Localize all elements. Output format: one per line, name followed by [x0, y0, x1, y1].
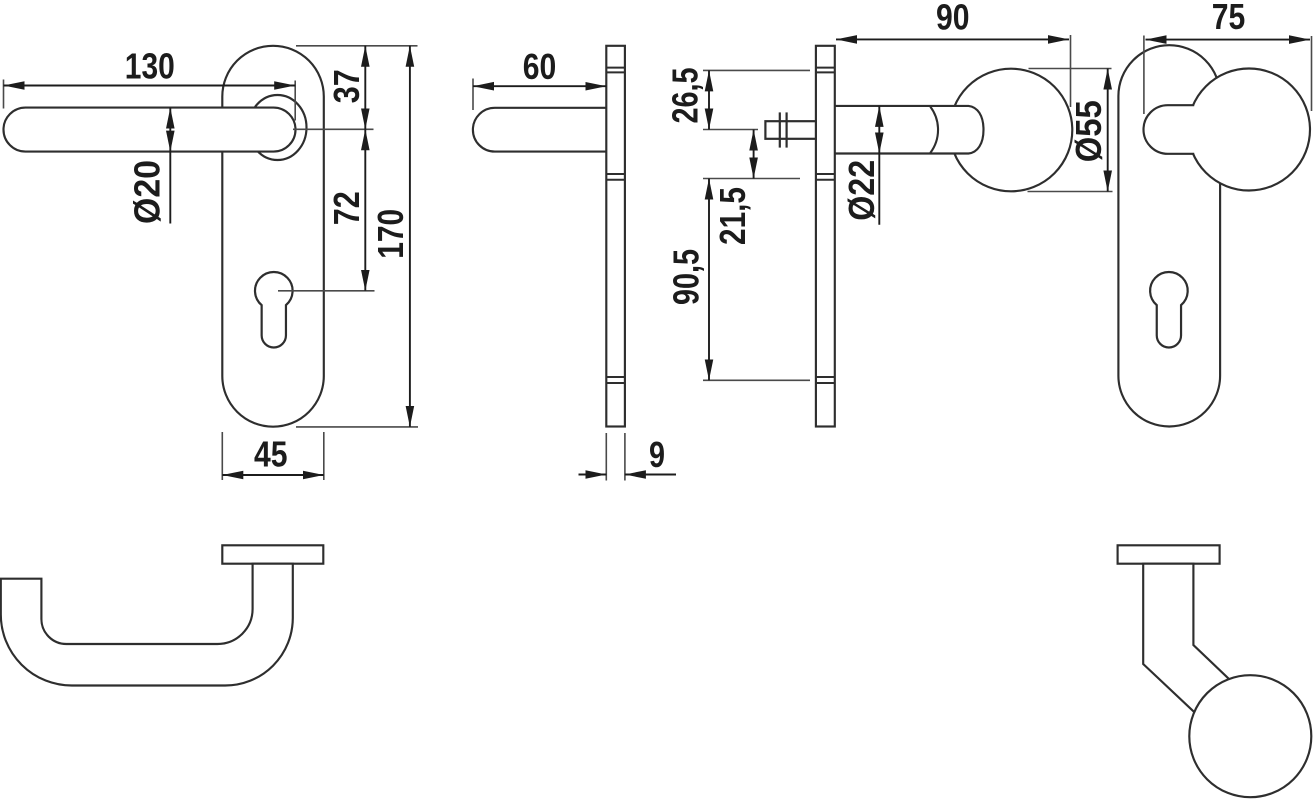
- svg-text:9: 9: [649, 434, 665, 475]
- svg-text:60: 60: [523, 46, 557, 87]
- svg-text:75: 75: [1212, 0, 1246, 37]
- knob flange: [1118, 545, 1220, 563]
- rosette circle (fig1 hub): [249, 95, 307, 160]
- dimension Ø55: [1107, 69, 1109, 192]
- knob ball: [1189, 675, 1311, 797]
- svg-text:Ø55: Ø55: [1068, 100, 1109, 162]
- extension line left of handle end: [3, 80, 5, 109]
- dimension 26,5: [708, 70, 710, 129]
- dimension Ø20 arrows: [169, 108, 171, 152]
- extension line 75 left: [1143, 36, 1145, 115]
- knob sphere (fig3): [950, 69, 1073, 192]
- dimension 130: [4, 85, 296, 87]
- dimension 37: [364, 46, 366, 130]
- dimension Ø22 tail: [878, 154, 880, 225]
- extension line handle end (fig2): [472, 79, 474, 111]
- knob neck cylinder (fig3): [835, 106, 984, 154]
- lever bar (fig1 handle): [4, 108, 296, 152]
- lever tube profile: [1, 564, 293, 686]
- extension line handle axis (fig1): [293, 128, 374, 130]
- dimension 90,5: [708, 179, 710, 381]
- svg-text:72: 72: [326, 191, 367, 225]
- dimension 90: [836, 38, 1069, 40]
- svg-text:45: 45: [254, 434, 288, 475]
- plate side view (fig3): [816, 46, 835, 427]
- dimension 21,5: [753, 130, 755, 179]
- extension line Ø55 top: [1029, 68, 1112, 70]
- svg-text:21,5: 21,5: [712, 187, 753, 245]
- extension line Ø55 bottom: [1028, 191, 1113, 193]
- svg-text:Ø22: Ø22: [841, 160, 882, 221]
- dimension 72: [364, 129, 366, 290]
- extension lines for 45: [221, 432, 223, 480]
- dimension Ø20 tail: [169, 152, 171, 224]
- svg-text:Ø20: Ø20: [127, 160, 168, 224]
- lever flange: [222, 545, 323, 563]
- extension line 75 right: [1311, 36, 1313, 111]
- extension line right of handle end: [294, 81, 296, 121]
- extension line plate bottom (fig1): [296, 426, 418, 428]
- extension lines for 9: [605, 433, 607, 481]
- plate (fig1 long plate front): [222, 46, 323, 427]
- dimension Ø22 arrows: [878, 106, 880, 154]
- extension line spindle axis: [703, 129, 758, 131]
- svg-text:130: 130: [125, 46, 175, 87]
- neck-sphere junction arc (fig3): [930, 107, 938, 153]
- extension line 90,5 bottom: [703, 379, 810, 381]
- knob circle (fig4): [1188, 69, 1310, 191]
- extension line 21,5 bottom: [703, 178, 800, 180]
- spindle nut lines: [779, 112, 781, 147]
- svg-text:90,5: 90,5: [666, 249, 707, 305]
- extension line plate top (fig1): [296, 45, 418, 47]
- knob neck profile: [1143, 564, 1229, 717]
- plate (fig4): [1118, 45, 1220, 426]
- knob neck (fig4): [1144, 105, 1195, 154]
- keyhole (fig1 euro profile cylinder hole): [255, 272, 293, 347]
- extension line right of 90: [1070, 35, 1072, 107]
- svg-text:26,5: 26,5: [665, 68, 706, 124]
- extension line keyhole axis (fig1): [278, 290, 375, 292]
- extension line 26,5 top: [703, 69, 810, 71]
- svg-text:170: 170: [370, 209, 411, 259]
- dimension 170: [409, 46, 411, 427]
- handle bar side view (fig2): [473, 108, 606, 152]
- groove lines fig3: [816, 68, 835, 383]
- svg-text:90: 90: [936, 0, 970, 38]
- dimension 9 left arrow: [579, 474, 607, 476]
- plate side view (fig2): [606, 46, 625, 427]
- keyhole (fig4): [1150, 272, 1188, 347]
- spindle (fig3): [765, 121, 816, 139]
- dimension 60: [473, 85, 606, 87]
- dimension 45: [222, 474, 323, 476]
- dimension 75: [1146, 39, 1311, 41]
- dimension 9 right arrow: [625, 474, 676, 476]
- groove lines fig2: [606, 68, 625, 383]
- svg-text:37: 37: [326, 69, 367, 103]
